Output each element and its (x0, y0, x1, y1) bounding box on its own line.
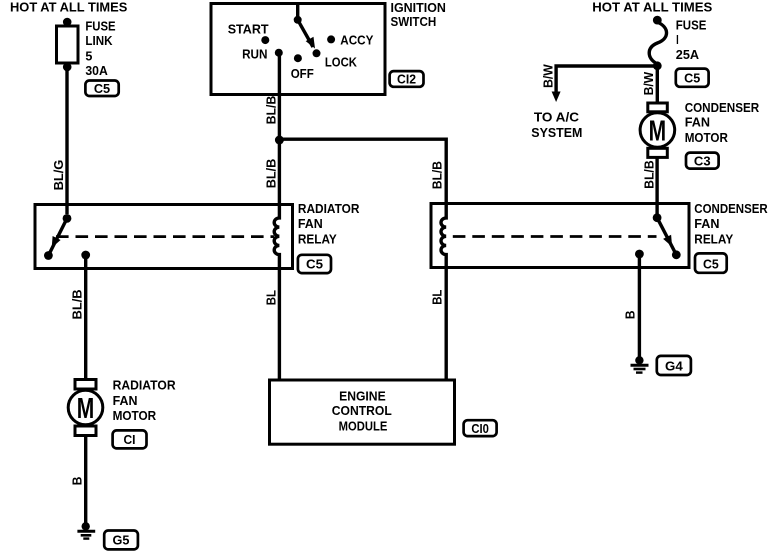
connector G4 (657, 356, 691, 375)
ECM box (270, 380, 455, 444)
svg-text:CONDENSER: CONDENSER (694, 201, 768, 216)
wire relay coil to ECM (right) (445, 268, 448, 381)
connector G5 (104, 531, 138, 550)
relay switch bottom contact dot (672, 250, 681, 259)
wire fuse to condenser fan motor (656, 66, 659, 104)
relay actuation dashed link (56, 235, 274, 238)
svg-text:B: B (623, 310, 638, 319)
contact dot ACCY (327, 35, 335, 43)
condenser fan relay box (431, 204, 689, 268)
ignition switch common contact dot (294, 16, 302, 24)
relay coil (condenser fan relay) (441, 204, 446, 268)
label TO A/C SYSTEM (531, 110, 582, 140)
svg-text:BL/B: BL/B (69, 289, 84, 319)
connector C10 (464, 420, 497, 436)
svg-text:G5: G5 (113, 533, 130, 548)
svg-text:B: B (69, 477, 84, 486)
svg-text:BL/B: BL/B (264, 159, 279, 189)
svg-text:25A: 25A (676, 47, 700, 62)
label FUSE LINK 5 30A (85, 18, 115, 78)
relay output contact dot (635, 250, 644, 259)
svg-text:FAN: FAN (113, 393, 138, 408)
svg-text:CI0: CI0 (471, 421, 489, 436)
fuse link 5 bottom terminal dot (63, 63, 72, 72)
wire into ignition switch (296, 4, 299, 19)
fuse link 5 (left): top terminal dot (63, 18, 72, 27)
relay switch arm (48, 218, 67, 255)
svg-text:SWITCH: SWITCH (391, 14, 437, 29)
ignition switch arm to LOCK (298, 20, 313, 47)
svg-text:START: START (228, 22, 269, 37)
contact dot OFF (294, 54, 302, 62)
relay coil (radiator fan relay) (274, 205, 279, 269)
svg-text:HOT AT ALL TIMES: HOT AT ALL TIMES (592, 0, 712, 14)
svg-text:LINK: LINK (85, 33, 113, 48)
svg-text:FUSE: FUSE (85, 18, 115, 33)
ground G5 (77, 522, 95, 539)
svg-text:HOT AT ALL TIMES: HOT AT ALL TIMES (10, 0, 128, 14)
svg-text:ENGINE: ENGINE (339, 389, 386, 404)
svg-text:CI2: CI2 (397, 72, 416, 87)
connector C3 (686, 153, 719, 169)
svg-text:BL: BL (430, 290, 445, 305)
ignition switch box (211, 4, 385, 95)
wire motor to ground (84, 436, 87, 527)
svg-text:RADIATOR: RADIATOR (298, 201, 360, 216)
junction node (fuse output) (653, 61, 662, 70)
contact dot START (261, 36, 269, 44)
svg-text:CONTROL: CONTROL (332, 403, 392, 418)
label CONDENSER FAN RELAY (694, 201, 768, 246)
relay switch arm (657, 218, 676, 255)
svg-text:SYSTEM: SYSTEM (531, 125, 582, 140)
relay switch top contact dot (653, 213, 662, 222)
radiator fan relay box (35, 205, 293, 269)
fuse link 5 body (57, 26, 79, 63)
svg-text:OFF: OFF (291, 66, 314, 81)
svg-text:5: 5 (85, 49, 92, 64)
wire branch to A/C system (556, 66, 657, 93)
svg-text:BL/B: BL/B (430, 161, 445, 189)
relay switch top contact dot (63, 214, 72, 223)
svg-text:FAN: FAN (685, 115, 710, 130)
wire ignition switch RUN down to radiator fan relay coil and ECM (277, 53, 280, 56)
wire relay output to ground G4 (638, 254, 641, 361)
svg-text:FAN: FAN (694, 216, 719, 231)
svg-text:MOTOR: MOTOR (113, 408, 157, 423)
wire relay output to radiator fan motor (84, 255, 87, 380)
label RADIATOR FAN RELAY (298, 201, 360, 246)
svg-text:C5: C5 (684, 71, 700, 86)
svg-text:M: M (77, 393, 95, 425)
svg-text:BL/B: BL/B (264, 96, 279, 125)
svg-text:IGNITION: IGNITION (391, 0, 446, 15)
svg-text:BL: BL (263, 290, 278, 305)
relay actuation dashed link (453, 235, 657, 238)
svg-text:MOTOR: MOTOR (685, 130, 729, 145)
wire motor to condenser fan relay (655, 157, 658, 214)
svg-text:RADIATOR: RADIATOR (113, 378, 177, 393)
connector C1 (113, 430, 147, 448)
condenser fan motor M (640, 103, 675, 157)
label CONDENSER FAN MOTOR (685, 100, 760, 145)
ground G4 (631, 356, 649, 373)
svg-text:BL/G: BL/G (51, 160, 66, 191)
radiator fan motor M (68, 380, 103, 436)
svg-text:B/W: B/W (540, 64, 555, 88)
label FUSE I 25A (676, 17, 707, 62)
relay switch bottom contact dot (44, 251, 53, 260)
svg-text:LOCK: LOCK (325, 55, 358, 70)
fuse 1 top terminal dot (653, 16, 662, 25)
svg-text:FAN: FAN (298, 216, 323, 231)
svg-text:G4: G4 (665, 359, 683, 374)
connector C12 (390, 71, 424, 87)
svg-text:B/W: B/W (641, 71, 656, 95)
wire relay coil to ECM (left) (278, 269, 281, 381)
svg-text:CI: CI (124, 432, 136, 447)
connector C5 (fuse 1) (676, 69, 709, 87)
wire branch to condenser fan relay coil (279, 139, 446, 204)
label ENGINE CONTROL MODULE (332, 389, 392, 434)
svg-text:RELAY: RELAY (694, 231, 733, 246)
contact dot LOCK (313, 49, 321, 57)
junction node (275, 136, 284, 145)
svg-text:RUN: RUN (242, 46, 267, 61)
connector C5 (fuse link) (85, 81, 118, 97)
svg-text:C5: C5 (94, 81, 110, 96)
svg-text:C3: C3 (694, 153, 711, 168)
svg-text:M: M (649, 116, 667, 148)
relay output contact dot (81, 251, 90, 260)
connector C5 (condenser fan relay) (695, 253, 727, 272)
svg-text:BL/B: BL/B (641, 160, 656, 189)
svg-text:I: I (676, 32, 679, 47)
svg-text:CONDENSER: CONDENSER (685, 100, 760, 115)
label IGNITION SWITCH (391, 0, 446, 29)
svg-text:C5: C5 (703, 257, 719, 272)
svg-text:MODULE: MODULE (339, 419, 388, 434)
svg-text:TO A/C: TO A/C (534, 110, 580, 125)
svg-text:ACCY: ACCY (340, 33, 373, 48)
svg-text:C5: C5 (306, 257, 323, 272)
svg-text:RELAY: RELAY (298, 231, 337, 246)
connector C5 (radiator fan relay) (298, 255, 331, 273)
label RADIATOR FAN MOTOR (113, 378, 177, 424)
svg-text:30A: 30A (85, 63, 108, 78)
contact dot RUN (275, 49, 283, 57)
svg-text:FUSE: FUSE (676, 17, 707, 32)
fuse 1 element (squiggle) (649, 22, 666, 64)
wire fuse link to radiator fan relay (65, 67, 68, 214)
